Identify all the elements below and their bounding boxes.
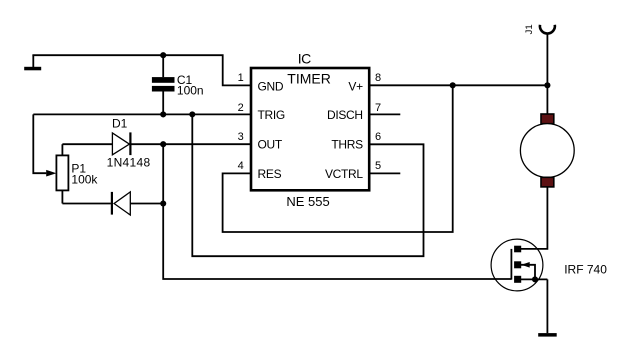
svg-text:3: 3 xyxy=(238,131,244,143)
svg-text:RES: RES xyxy=(258,167,282,181)
svg-text:V+: V+ xyxy=(348,80,363,94)
svg-text:OUT: OUT xyxy=(258,138,283,152)
svg-text:VCTRL: VCTRL xyxy=(325,167,363,181)
svg-text:7: 7 xyxy=(375,102,381,114)
svg-text:TIMER: TIMER xyxy=(287,71,331,87)
svg-text:100k: 100k xyxy=(71,172,98,186)
svg-text:IC: IC xyxy=(298,51,311,67)
svg-text:NE 555: NE 555 xyxy=(286,194,329,209)
svg-text:4: 4 xyxy=(238,160,244,172)
svg-text:THRS: THRS xyxy=(331,138,363,152)
svg-text:2: 2 xyxy=(238,102,244,114)
svg-text:6: 6 xyxy=(375,131,381,143)
svg-text:1N4148: 1N4148 xyxy=(107,156,151,170)
svg-text:100n: 100n xyxy=(177,84,204,98)
svg-text:1: 1 xyxy=(238,72,244,84)
svg-text:DISCH: DISCH xyxy=(327,108,363,122)
svg-text:IRF 740: IRF 740 xyxy=(564,262,607,276)
svg-text:5: 5 xyxy=(375,160,381,172)
svg-text:J1: J1 xyxy=(524,24,535,34)
svg-text:TRIG: TRIG xyxy=(258,108,285,122)
svg-text:8: 8 xyxy=(375,72,381,84)
svg-text:GND: GND xyxy=(258,80,284,94)
svg-text:D1: D1 xyxy=(112,117,128,131)
